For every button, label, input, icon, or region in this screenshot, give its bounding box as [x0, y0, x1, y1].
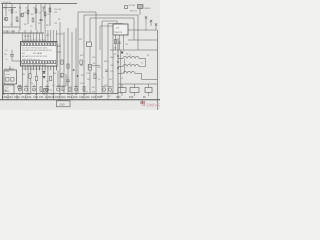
wire ground bus: [0, 99, 160, 101]
wire pin stub: [41, 66, 43, 71]
node pin box: [22, 61, 24, 64]
label battery2: [5, 90, 10, 93]
label U1 pinrow bottom: [22, 64, 46, 66]
wire right rail: [156, 30, 158, 110]
wire step2: [135, 74, 157, 80]
label: [83, 94, 87, 96]
label: [35, 94, 38, 96]
label: [53, 73, 56, 75]
wire U-loop: [58, 71, 66, 87]
node pin box: [51, 61, 53, 64]
wire: [19, 4, 21, 31]
label: [30, 26, 32, 28]
label: [87, 79, 90, 81]
wire bottom bus: [3, 93, 119, 95]
label: [6, 58, 8, 61]
capacitor: [45, 85, 49, 92]
resistor: [145, 88, 152, 93]
wire: [95, 12, 97, 94]
label: [4, 90, 7, 92]
wire ground drop: [16, 94, 18, 100]
node pin box: [39, 43, 41, 46]
wire pin stub: [21, 66, 23, 71]
wire: [89, 18, 91, 94]
wire pin: [33, 33, 35, 42]
label: [23, 13, 26, 15]
node pin box: [45, 43, 47, 46]
label: [125, 44, 128, 46]
label U1 row5: [22, 59, 40, 61]
capacitor: [118, 42, 120, 44]
wire: [139, 8, 141, 15]
wire loop5: [108, 23, 123, 26]
wire loop4: [102, 21, 117, 24]
wire ground drop: [107, 94, 109, 100]
label: [19, 94, 22, 96]
label: [55, 95, 60, 99]
wire pin: [41, 33, 43, 42]
wire pin: [36, 33, 38, 42]
wire pin: [30, 33, 32, 42]
wire: [121, 84, 123, 88]
label: [67, 95, 72, 99]
label: [110, 65, 113, 67]
label: [33, 90, 35, 92]
wire: [83, 15, 85, 94]
capacitor: [88, 66, 91, 68]
wire pin: [53, 66, 55, 70]
resistor: [118, 88, 126, 93]
label: [129, 55, 131, 57]
node pin box: [48, 43, 50, 46]
label: [18, 90, 21, 92]
wire tick: [24, 30, 26, 33]
capacitor: [32, 85, 36, 92]
label: [108, 96, 111, 98]
label: [27, 94, 31, 96]
wire step1: [139, 59, 146, 67]
resistor: [29, 74, 31, 79]
wire pin: [27, 66, 29, 70]
capacitor box: [125, 5, 144, 9]
resistor inside U2: [6, 78, 9, 82]
label: [14, 95, 20, 99]
resistor: [35, 9, 37, 13]
label: [33, 95, 38, 99]
inductor L2: [123, 65, 139, 67]
wire: [117, 38, 119, 94]
label: [19, 8, 21, 10]
node junction: [117, 55, 119, 57]
wire ground drop: [59, 94, 61, 100]
label: [81, 75, 84, 77]
wire: [112, 36, 114, 94]
label U1 bottom outside: [22, 68, 43, 70]
wire: [118, 59, 125, 74]
label: [46, 81, 48, 83]
wire loop2: [84, 15, 138, 50]
resistor: [69, 87, 71, 91]
label: [100, 96, 103, 98]
label: [80, 83, 83, 85]
node pin box: [39, 61, 41, 64]
node probe: [150, 20, 152, 26]
transistor: [20, 13, 24, 17]
label: [128, 5, 135, 7]
label: [25, 8, 27, 10]
diode: [73, 69, 75, 71]
wire: [115, 35, 117, 50]
label: [31, 83, 33, 85]
resistor inside U2: [11, 78, 14, 82]
label: [80, 65, 83, 67]
resistor: [16, 17, 18, 21]
label: [121, 78, 123, 80]
wire pin: [53, 30, 55, 42]
label: [141, 63, 143, 65]
wire: [5, 4, 7, 17]
label: [27, 95, 32, 99]
resistor center box: [87, 42, 92, 47]
resistor flag box: [88, 65, 100, 71]
node junction: [117, 61, 119, 63]
battery box: [4, 85, 15, 94]
label: [8, 10, 10, 12]
node junction: [117, 67, 119, 69]
label: [97, 67, 100, 69]
label: [49, 90, 52, 92]
label: [46, 25, 48, 27]
label: [54, 23, 57, 25]
wire pin stub: [44, 66, 46, 71]
label: [86, 73, 89, 75]
label: [110, 71, 113, 73]
label: [45, 95, 55, 99]
label: [3, 94, 6, 96]
wire: [59, 22, 61, 30]
wire vert x100: [99, 26, 101, 50]
label: [33, 8, 36, 10]
label: [129, 96, 134, 99]
wire: [134, 84, 136, 88]
diode D5: [43, 71, 46, 74]
wire pin stub: [33, 66, 35, 71]
wire pin stub: [53, 66, 55, 71]
label battery: [5, 87, 10, 89]
label: [85, 61, 87, 63]
wire loop6: [100, 25, 113, 27]
label: [54, 12, 57, 14]
capacitor: [74, 85, 78, 92]
resistor: [49, 8, 51, 12]
wire pin: [41, 66, 43, 70]
wire h39: [128, 39, 157, 41]
wire probes down: [145, 23, 147, 31]
diode D6: [43, 76, 46, 79]
wire pin: [47, 30, 49, 42]
wire ground drop: [95, 94, 97, 100]
label: [56, 34, 63, 36]
label: [59, 94, 62, 96]
wire right-rail top: [140, 29, 157, 31]
label: [79, 39, 82, 41]
label: [39, 95, 44, 99]
label: [8, 95, 13, 99]
wire loop1: [78, 11, 96, 13]
resistor: [27, 10, 29, 14]
wire pin: [56, 66, 58, 70]
label: [61, 95, 66, 99]
wire tick: [18, 30, 20, 33]
wire ground drop: [83, 94, 85, 100]
wire h50: [110, 49, 157, 51]
node pin box: [28, 61, 30, 64]
label: [38, 23, 41, 25]
wire pin: [21, 66, 23, 70]
wire pin: [57, 51, 61, 53]
wire mid bus: [3, 32, 45, 34]
wire sub bus2: [3, 26, 21, 28]
wire: [119, 35, 121, 50]
label: [10, 24, 13, 26]
wire short sub-bus: [3, 7, 17, 9]
label: [24, 24, 26, 26]
label: [58, 19, 60, 21]
wire pin: [36, 66, 38, 70]
label: [97, 95, 102, 99]
wire ground drop: [53, 94, 55, 100]
wire ground drop: [25, 94, 27, 100]
wire pin stub: [38, 66, 40, 71]
wire: [27, 4, 29, 25]
node pin box: [25, 43, 27, 46]
wire: [75, 28, 77, 94]
node pin box: [33, 43, 35, 46]
transistor: [60, 73, 64, 77]
label: [98, 79, 100, 81]
wire pin stub: [30, 66, 32, 71]
label: [4, 8, 6, 10]
transistor: [4, 17, 8, 21]
wire pin: [27, 33, 29, 42]
label U1 row2: [22, 50, 52, 52]
node pin box: [42, 43, 44, 46]
label: [126, 54, 128, 56]
label U2 title: [5, 68, 15, 70]
label watermark dark: [140, 99, 146, 107]
label: [144, 8, 150, 10]
wire pin: [24, 66, 26, 70]
node pin box: [51, 43, 53, 46]
wire tick: [36, 30, 38, 33]
wire: [107, 24, 109, 94]
wire: [53, 71, 55, 94]
label: [15, 12, 17, 14]
label: [21, 95, 26, 99]
wire tick: [30, 30, 32, 33]
wire pin stub: [47, 66, 49, 71]
fuse wiggle: [43, 6, 45, 12]
label: [114, 54, 117, 56]
label: [54, 9, 61, 11]
wire top supply bus: [1, 3, 77, 5]
node pin box: [22, 43, 24, 46]
wire tick: [12, 30, 14, 33]
wire: [134, 93, 136, 97]
wire: [148, 93, 150, 97]
label: [101, 84, 103, 86]
wire: [41, 71, 43, 94]
label: [52, 85, 55, 87]
label: [85, 92, 88, 94]
wire U3 right: [128, 29, 140, 31]
wire: [36, 71, 38, 94]
op-amp U3 body: [113, 24, 128, 35]
resistor: [114, 40, 116, 44]
label U1 name: [33, 52, 42, 55]
resistor: [40, 87, 42, 91]
wire: [30, 71, 32, 94]
label: [114, 48, 117, 50]
label: [22, 74, 25, 76]
label: [92, 92, 95, 94]
label: [67, 94, 71, 96]
wire: [12, 56, 21, 61]
wire: [67, 28, 69, 94]
wire: [49, 4, 51, 27]
label: [110, 92, 114, 94]
label: [31, 14, 33, 16]
node pin box: [31, 61, 33, 64]
LED: [18, 85, 22, 89]
label: [143, 96, 146, 99]
wire: [118, 66, 123, 68]
wire pin stub: [50, 66, 52, 71]
label: [11, 94, 15, 96]
label: [73, 95, 78, 99]
wire: [47, 71, 49, 94]
label U1 row: [22, 55, 47, 58]
wire: [148, 84, 150, 88]
resistor: [44, 12, 46, 16]
label: [130, 11, 137, 13]
label: [103, 77, 105, 79]
wire pin stub: [24, 66, 26, 71]
wire ground drop: [117, 94, 119, 100]
wire pin: [21, 33, 23, 42]
label: [51, 94, 55, 96]
wire: [44, 4, 46, 31]
label: [42, 8, 44, 10]
resistor: [62, 86, 64, 90]
wire bottom bus right: [118, 83, 157, 85]
resistor: [50, 76, 52, 81]
label U1 row3: [22, 53, 25, 55]
label top-left: [3, 2, 11, 4]
resistor: [83, 87, 85, 91]
resistor: [94, 75, 96, 79]
label U3 l1: [116, 28, 120, 30]
label: [60, 77, 63, 79]
node title box: [57, 101, 71, 107]
wire pin stub: [56, 66, 58, 71]
thyristor X mark: [44, 89, 48, 93]
label: [46, 35, 49, 37]
wire: [59, 30, 61, 94]
capacitor: [102, 87, 106, 91]
label: [104, 85, 107, 87]
wire ground drop: [36, 94, 38, 100]
node pin box: [31, 43, 33, 46]
label: [92, 57, 95, 59]
label watermark light: [146, 103, 164, 108]
resistor: [32, 18, 34, 22]
wire ground drop: [71, 94, 73, 100]
wire pin: [57, 45, 61, 47]
node pin box: [36, 43, 38, 46]
label U3 l2: [114, 32, 122, 34]
label inside U2: [6, 71, 10, 73]
wire pin: [50, 30, 52, 42]
label: [93, 63, 96, 65]
label: [24, 36, 30, 38]
wire pin: [38, 33, 40, 42]
wire: [27, 71, 29, 94]
capacitor: [56, 85, 60, 92]
node pin box: [48, 61, 50, 64]
resistor: [35, 76, 37, 81]
label: [75, 94, 78, 96]
label: [85, 95, 90, 99]
capacitor: [66, 76, 70, 86]
inductor L3: [123, 72, 135, 74]
label: [2, 95, 8, 99]
wire: [11, 4, 13, 28]
capacitor: [24, 85, 28, 92]
resistor small box: [80, 60, 82, 64]
label U1 pinrow top: [22, 47, 47, 49]
wire: [3, 83, 5, 85]
op-amp U1 body: [21, 42, 58, 67]
wire pin: [47, 66, 49, 70]
label: [92, 87, 95, 89]
wire: [77, 12, 79, 94]
wire loop3: [90, 18, 134, 40]
label inside U2: [6, 73, 11, 76]
resistor: [67, 64, 69, 68]
label: [114, 57, 116, 59]
label: [79, 95, 84, 99]
label: [147, 55, 150, 57]
capacitor: [18, 85, 22, 92]
label: [109, 79, 112, 81]
diode: [40, 19, 43, 21]
wire ground drop: [7, 94, 9, 100]
wire pin: [44, 66, 46, 70]
node pin box: [33, 61, 35, 64]
capacitor: [105, 70, 108, 72]
label: [104, 61, 107, 63]
wire mains second: [120, 50, 122, 94]
wire pin: [56, 30, 58, 42]
label U1 top outside: [22, 40, 47, 42]
node probe: [145, 16, 147, 22]
label: [80, 55, 83, 57]
wire: [118, 73, 123, 75]
diode: [77, 75, 79, 77]
label: [91, 95, 96, 99]
wire: [101, 21, 103, 94]
